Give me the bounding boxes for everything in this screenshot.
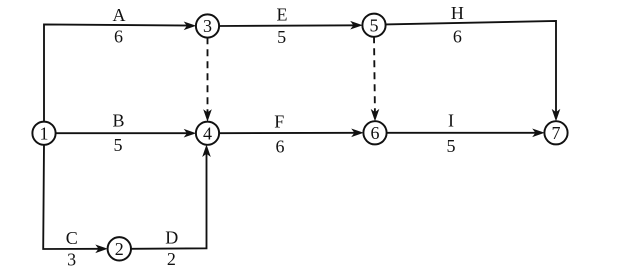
svg-text:7: 7 bbox=[552, 123, 561, 143]
svg-text:5: 5 bbox=[114, 135, 123, 155]
svg-text:3: 3 bbox=[67, 249, 76, 266]
svg-text:5: 5 bbox=[370, 15, 379, 35]
svg-text:C: C bbox=[66, 228, 78, 248]
svg-text:5: 5 bbox=[277, 27, 286, 47]
svg-text:D: D bbox=[165, 228, 178, 248]
svg-text:6: 6 bbox=[453, 27, 462, 47]
svg-text:I: I bbox=[448, 111, 454, 131]
svg-text:6: 6 bbox=[276, 137, 285, 157]
svg-text:6: 6 bbox=[114, 27, 123, 47]
svg-text:2: 2 bbox=[167, 249, 176, 266]
svg-text:4: 4 bbox=[203, 123, 212, 143]
svg-text:2: 2 bbox=[115, 239, 124, 259]
svg-text:B: B bbox=[112, 111, 124, 131]
svg-text:3: 3 bbox=[203, 16, 212, 36]
svg-text:1: 1 bbox=[40, 123, 49, 143]
svg-text:A: A bbox=[113, 5, 126, 25]
svg-text:H: H bbox=[451, 3, 464, 23]
svg-text:E: E bbox=[277, 5, 288, 25]
svg-text:5: 5 bbox=[447, 136, 456, 156]
svg-text:6: 6 bbox=[371, 123, 380, 143]
svg-text:F: F bbox=[274, 112, 284, 132]
